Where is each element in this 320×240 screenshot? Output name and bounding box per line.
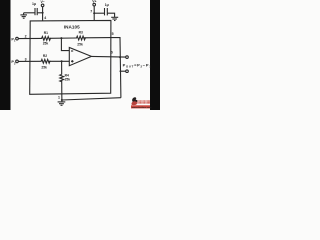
node supply-left junction (42, 12, 44, 14)
node B (+ input junction) (61, 60, 63, 62)
node lower branch (120, 70, 122, 72)
plus sign (71, 60, 74, 62)
svg-text:7: 7 (90, 9, 92, 13)
wire junction to C1 (37, 12, 42, 14)
resistor R1 25k (41, 37, 51, 41)
wire junction to C2 (94, 12, 104, 14)
capacitor C1 1u (36, 8, 38, 15)
svg-text:1μ: 1μ (32, 2, 36, 6)
wire R3 to pin5 (84, 37, 111, 39)
svg-text:R3: R3 (79, 31, 83, 35)
svg-text:25k: 25k (77, 43, 83, 47)
svg-text:25k: 25k (65, 77, 71, 81)
op-amp A1 (69, 48, 91, 66)
wire bottom rail (62, 98, 121, 100)
resistor R3 25k (feedback) (76, 36, 86, 40)
wire pin1 to bottom rail (61, 94, 63, 100)
terminal output common (126, 70, 129, 73)
ground (bottom) (61, 100, 63, 102)
ground (right supply) (111, 16, 118, 18)
wire C2 to ground (107, 13, 114, 17)
op-amp IC package box U1 (30, 20, 111, 94)
wire V+ down to box (93, 6, 95, 21)
wire R4 to pin 1 (61, 80, 63, 94)
wire node A down to inverting input (61, 38, 69, 50)
svg-text:V−: V− (41, 0, 45, 4)
svg-text:R2: R2 (43, 54, 47, 58)
wire C1 to ground (24, 12, 35, 14)
wire op-amp output to terminal (91, 55, 125, 58)
terminal output VOUT (126, 56, 129, 59)
wire R2 to node B (49, 60, 69, 62)
svg-text:5: 5 (112, 32, 114, 36)
minus sign (71, 50, 73, 52)
terminal input V1 (pin 2) (16, 37, 19, 40)
svg-text:1: 1 (58, 95, 60, 99)
wire feedback outside box (111, 38, 121, 98)
node A (inverting summing junction) (60, 37, 62, 39)
svg-text:2: 2 (25, 34, 27, 38)
svg-text:25k: 25k (43, 42, 49, 46)
svg-text:INA105: INA105 (64, 25, 80, 30)
resistor R2 25k (41, 59, 51, 63)
wire to lower output terminal (120, 70, 125, 72)
terminal input V2 (pin 3) (16, 60, 19, 63)
node supply-right junction (93, 12, 95, 14)
node feedback-output junction (119, 56, 121, 58)
svg-text:4: 4 (44, 16, 46, 20)
svg-text:www.elecfans.com: www.elecfans.com (132, 107, 152, 109)
svg-text:R1: R1 (44, 31, 48, 35)
svg-text:V+: V+ (92, 0, 96, 4)
wire V- down to box (42, 7, 44, 21)
svg-text:3: 3 (25, 57, 27, 61)
wire V2 to R2 (18, 60, 40, 62)
wire R1 to node A (50, 37, 76, 39)
resistor R4 25k (to ground ref) (61, 61, 63, 74)
wire V1 to R1 (18, 37, 41, 39)
svg-text:1μ: 1μ (105, 3, 109, 7)
terminal V+ (pin 7 supply) (93, 3, 96, 6)
capacitor C2 1u (104, 8, 106, 15)
svg-text:25k: 25k (41, 65, 47, 69)
svg-text:6: 6 (111, 50, 113, 54)
terminal V- (pin 4 supply) (41, 4, 44, 7)
watermark logo elecfans (131, 97, 151, 109)
node ground junction (61, 99, 63, 101)
ground (left supply) (23, 13, 25, 15)
